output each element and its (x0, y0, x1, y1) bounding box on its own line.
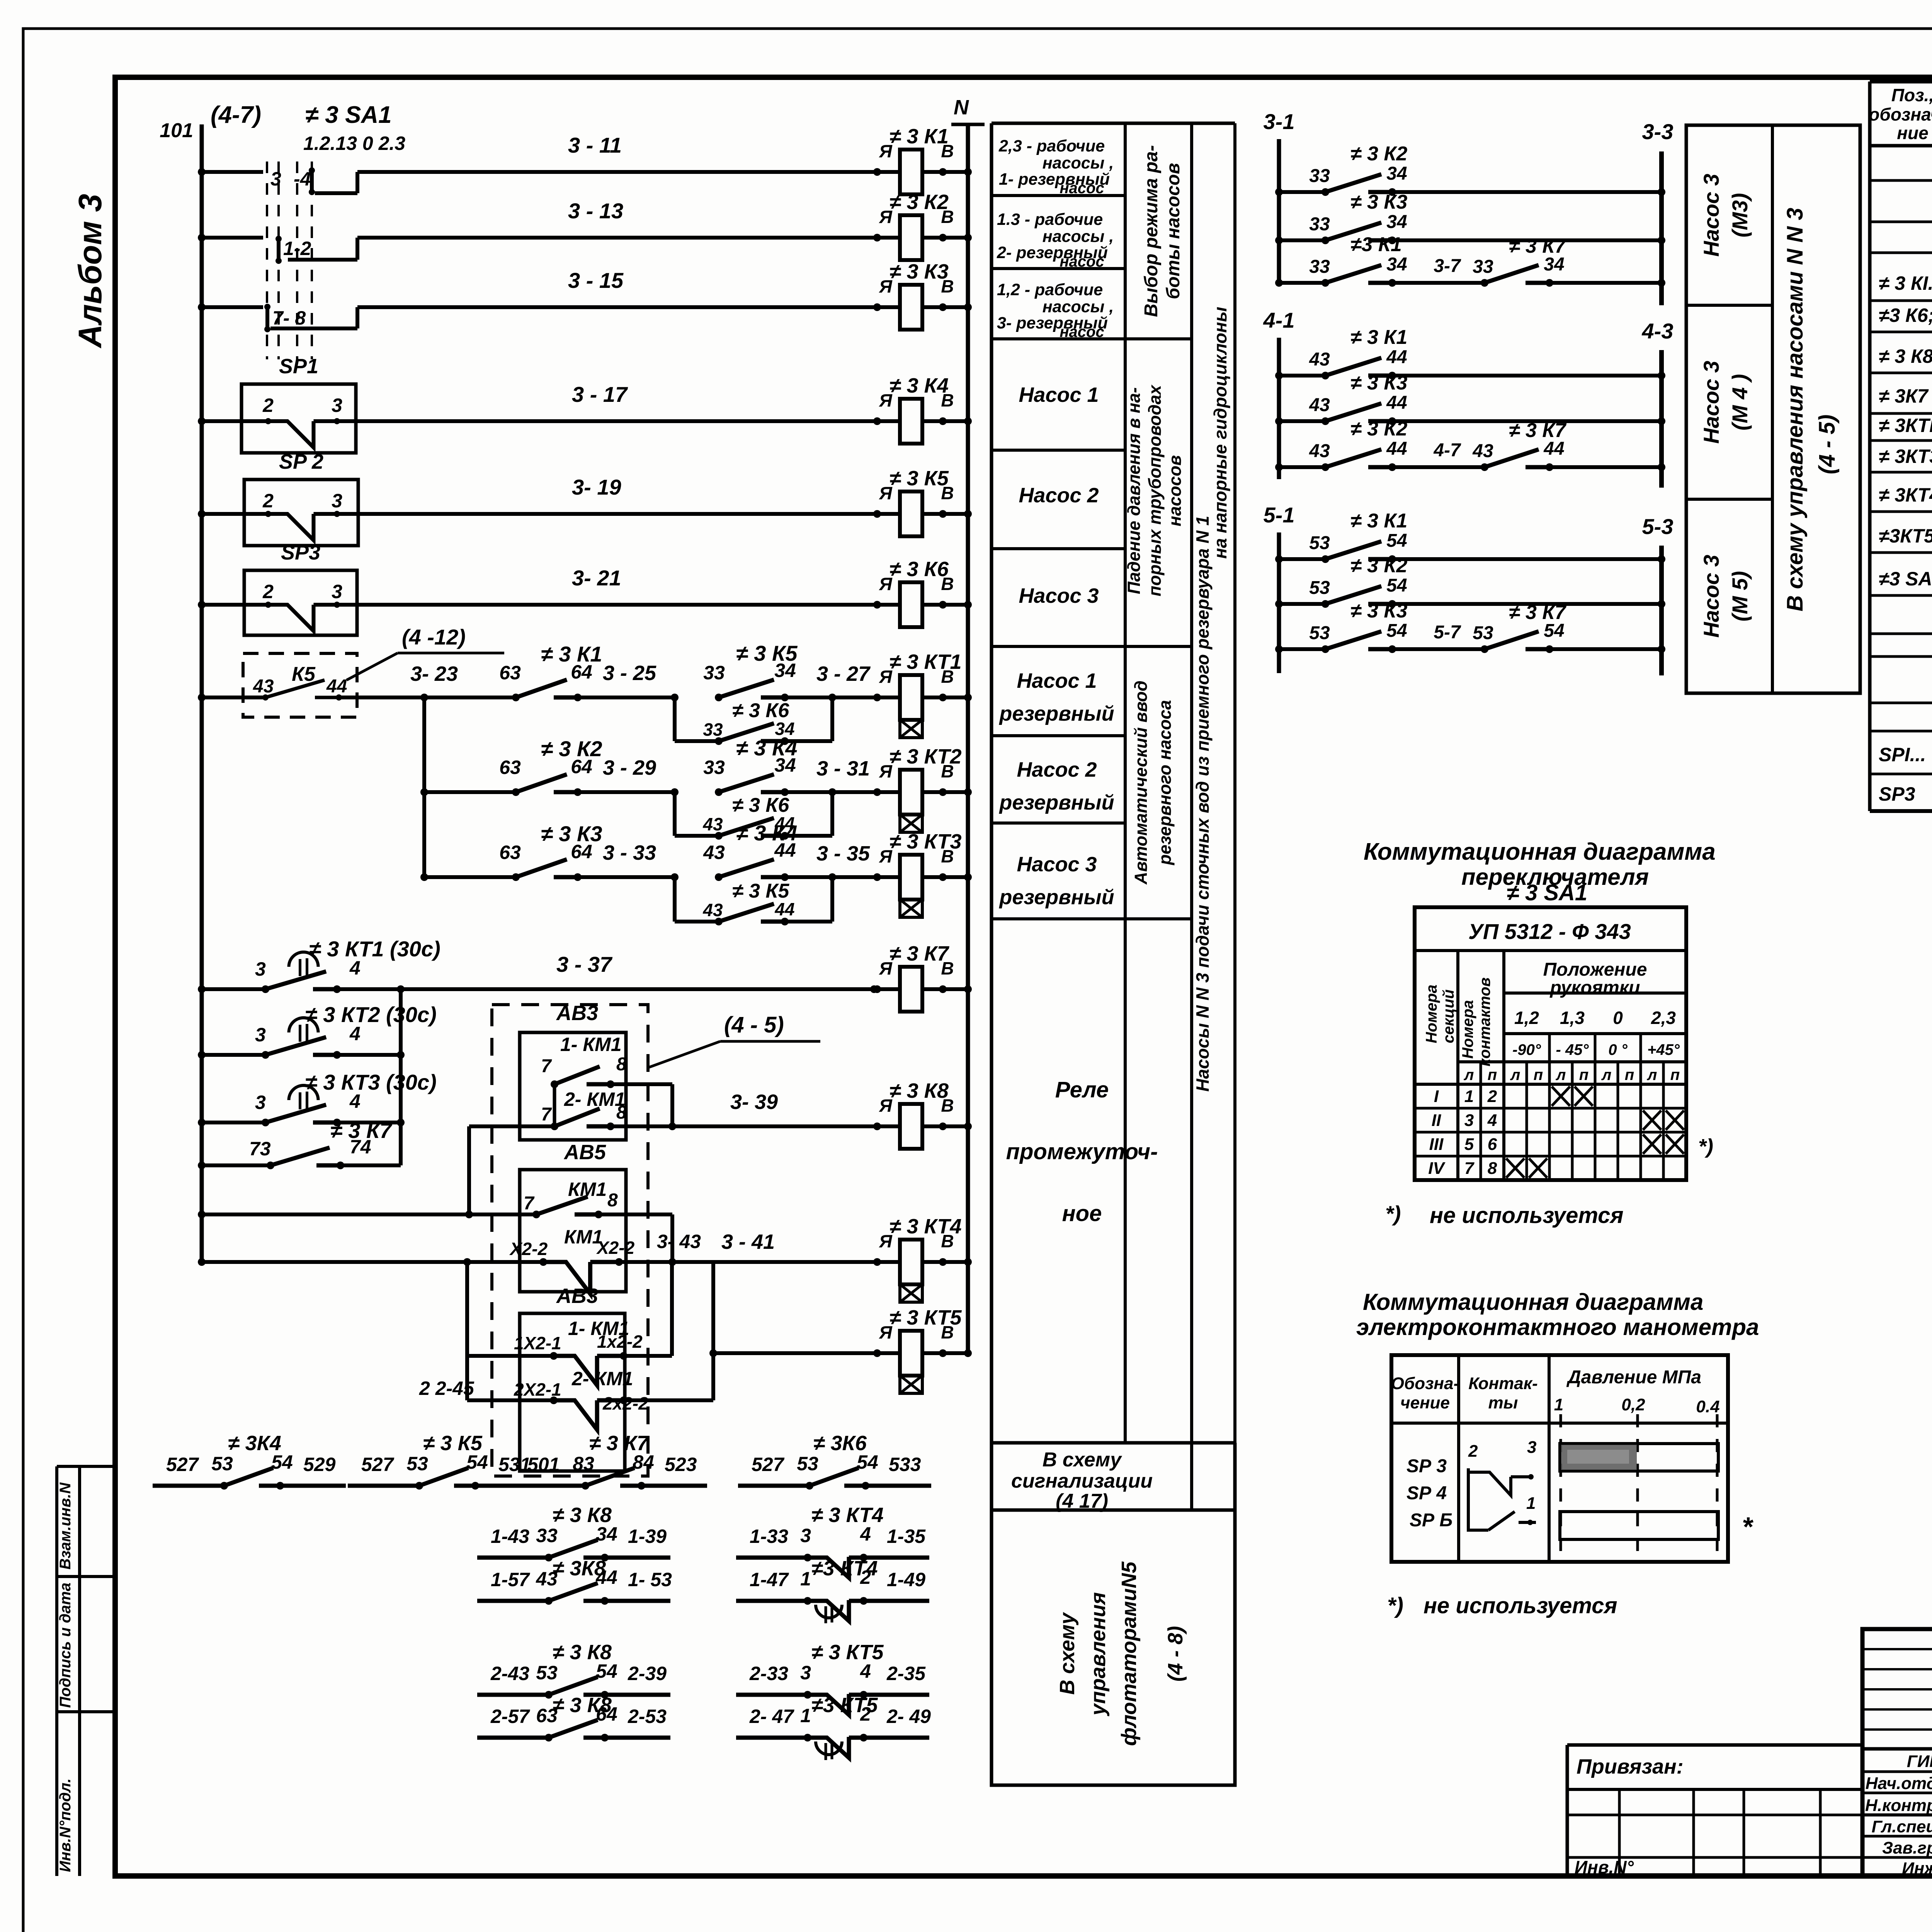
svg-text:4-3: 4-3 (1642, 319, 1673, 343)
svg-text:43: 43 (703, 842, 725, 863)
svg-text:-4: -4 (294, 168, 311, 190)
svg-text:п: п (1488, 1066, 1497, 1083)
relay coil K2 (862, 236, 900, 240)
svg-text:SР 4: SР 4 (1406, 1483, 1447, 1503)
svg-text:0.4: 0.4 (1696, 1397, 1719, 1416)
svg-text:(4 - 8): (4 - 8) (1164, 1626, 1187, 1682)
svg-text:8: 8 (616, 1054, 627, 1075)
svg-text:(4 - 5): (4 - 5) (1815, 415, 1840, 474)
svg-text:≠3 КТ5: ≠3 КТ5 (811, 1694, 878, 1717)
svg-text:2,3: 2,3 (1651, 1008, 1676, 1028)
svg-text:3: 3 (1464, 1111, 1474, 1130)
svg-text:Коммутационная диаграмма: Коммутационная диаграмма (1363, 1289, 1703, 1315)
wire rung 3-21 (198, 601, 206, 609)
svg-text:насос: насос (1060, 323, 1104, 340)
svg-text:1: 1 (800, 1705, 811, 1726)
svg-text:≠ 3К7: ≠ 3К7 (1879, 385, 1929, 407)
svg-text:≠ 3 К8: ≠ 3 К8 (1879, 345, 1932, 367)
svg-text:ное: ное (1062, 1201, 1102, 1226)
svg-text:8: 8 (616, 1102, 627, 1123)
svg-text:2: 2 (262, 581, 274, 602)
svg-text:101: 101 (160, 119, 193, 142)
svg-text:0,2: 0,2 (1621, 1395, 1645, 1414)
svg-text:л: л (1556, 1066, 1566, 1083)
svg-text:3: 3 (255, 1024, 266, 1046)
svg-text:33: 33 (703, 719, 723, 740)
svg-text:контактов: контактов (1476, 977, 1493, 1066)
svg-text:501: 501 (527, 1454, 560, 1475)
svg-text:3: 3 (800, 1662, 811, 1684)
svg-text:≠ 3 КТ1: ≠ 3 КТ1 (889, 650, 962, 673)
chain contact ≠ 3К4 527 (153, 1484, 224, 1488)
branch vertical X2 chains (465, 1262, 469, 1400)
block AB5 (520, 1170, 626, 1292)
svg-text:≠ 3 КТ4: ≠ 3 КТ4 (811, 1503, 884, 1527)
svg-text:л: л (1647, 1066, 1657, 1083)
svg-text:ние: ние (1897, 123, 1928, 143)
svg-text:1,3: 1,3 (1560, 1008, 1585, 1028)
svg-text:523: 523 (665, 1454, 697, 1475)
svg-text:1.3 - рабочие: 1.3 - рабочие (997, 210, 1103, 229)
wire rung 3-19 (198, 510, 206, 518)
svg-text:3 - 27: 3 - 27 (816, 662, 871, 685)
svg-text:3-3: 3-3 (1642, 119, 1673, 144)
svg-text:53: 53 (797, 1453, 818, 1475)
svg-text:SРI...: SРI... (1879, 744, 1926, 765)
svg-text:≠ 3 К7: ≠ 3 К7 (1509, 235, 1566, 257)
svg-text:насосов: насосов (1165, 455, 1185, 526)
svg-text:63: 63 (499, 757, 521, 778)
svg-text:3- 43: 3- 43 (657, 1231, 701, 1252)
svg-text:Номера: Номера (1423, 985, 1440, 1043)
wire rung 3-13 (198, 234, 206, 241)
svg-text:≠ 3 К3: ≠ 3 К3 (1350, 191, 1407, 213)
svg-text:насос: насос (1060, 253, 1104, 270)
svg-text:SР3: SР3 (1879, 783, 1915, 805)
svg-text:3 - 41: 3 - 41 (721, 1230, 775, 1253)
relay coil KT1 (time) (862, 696, 900, 699)
svg-text:3 - 25: 3 - 25 (603, 662, 656, 685)
svg-text:≠3 КТ4: ≠3 КТ4 (811, 1557, 878, 1580)
svg-text:1-39: 1-39 (628, 1526, 667, 1547)
pressure switch SP3 (244, 570, 357, 635)
wire rung KT2 3-29 (420, 788, 428, 796)
svg-text:Насос 3: Насос 3 (1017, 853, 1097, 876)
svg-text:5-7: 5-7 (1434, 622, 1461, 643)
svg-text:резервный: резервный (998, 791, 1114, 814)
svg-text:Насос 3: Насос 3 (1699, 555, 1723, 638)
SA1 commutation table (1415, 907, 1686, 1180)
N rail (966, 124, 970, 1353)
svg-text:≠ 3 К2: ≠ 3 К2 (1350, 418, 1407, 440)
svg-text:33: 33 (1309, 257, 1330, 277)
svg-text:44: 44 (1386, 439, 1407, 459)
svg-text:≠ 3 КТ2: ≠ 3 КТ2 (889, 745, 962, 768)
svg-text:управления: управления (1087, 1592, 1110, 1717)
svg-text:≠ 3 К5: ≠ 3 К5 (732, 880, 789, 902)
svg-text:п: п (1534, 1066, 1543, 1083)
group rung 3-1-3 (1275, 279, 1283, 287)
svg-text:≠ 3 К1: ≠ 3 К1 (889, 125, 949, 148)
svg-text:0 °: 0 ° (1608, 1041, 1628, 1058)
svg-text:2: 2 (1487, 1087, 1497, 1106)
svg-text:33: 33 (536, 1525, 558, 1546)
svg-text:≠ 3 К5: ≠ 3 К5 (889, 467, 949, 490)
svg-text:≠ 3 К8: ≠ 3 К8 (889, 1079, 949, 1102)
svg-text:3- 19: 3- 19 (572, 475, 621, 499)
wire rung KT3 3-33 (420, 873, 428, 881)
svg-text:≠ 3КТ3: ≠ 3КТ3 (1879, 446, 1932, 467)
svg-text:529: 529 (303, 1454, 336, 1475)
svg-text:УП 5312 - Ф 343: УП 5312 - Ф 343 (1468, 919, 1631, 944)
right rail 3-3 (1659, 151, 1664, 305)
svg-text:≠ 3 КI...: ≠ 3 КI... (1879, 272, 1932, 294)
chain contact ≠ 3 К8 1-43 (477, 1556, 549, 1560)
svg-text:2: 2 (1468, 1442, 1478, 1461)
svg-text:44: 44 (326, 676, 347, 697)
svg-text:л: л (1464, 1066, 1474, 1083)
svg-text:5: 5 (1464, 1135, 1474, 1154)
switch SA1 dashed position lines (266, 156, 268, 359)
svg-text:33: 33 (703, 757, 725, 778)
group rung 4-1-1 (1275, 372, 1283, 379)
svg-text:насосы ,: насосы , (1043, 154, 1114, 172)
pressure switch SP1 (241, 384, 356, 453)
riser to K8 rung (670, 1084, 674, 1126)
svg-text:II: II (1432, 1111, 1441, 1130)
svg-text:7: 7 (524, 1193, 535, 1214)
svg-text:3- 23: 3- 23 (410, 662, 458, 685)
left margin strip (55, 1466, 58, 1876)
wire rung 3-39 to K8 (611, 1124, 877, 1128)
svg-text:1-49: 1-49 (887, 1569, 925, 1590)
block AB3 upper (520, 1032, 626, 1140)
svg-text:33: 33 (1309, 214, 1330, 235)
wire rung KT4 3-41 (713, 1260, 877, 1264)
svg-text:≠ 3 К7: ≠ 3 К7 (589, 1432, 650, 1455)
chain contact ≠ 3 К7 501 (514, 1484, 585, 1488)
svg-text:1-33: 1-33 (750, 1526, 788, 1547)
svg-text:промежуточ-: промежуточ- (1006, 1139, 1158, 1164)
svg-text:рукоятки: рукоятки (1549, 978, 1640, 998)
bypass contact K6 43-44 (673, 792, 677, 836)
group rail 3-1 (1277, 139, 1281, 286)
bypass contact K6 33-34 (673, 697, 677, 741)
bypass contact K5 43-44 (673, 877, 677, 922)
svg-text:1-35: 1-35 (887, 1526, 926, 1547)
chain contact ≠ 3К8 1-57 (477, 1599, 549, 1603)
svg-text:7- 8: 7- 8 (272, 307, 306, 329)
chain contact ≠3 КТ4 1-47 (736, 1599, 808, 1603)
junction vertical for K7 feeds (399, 989, 403, 1165)
group rung 3-1-1 (1275, 188, 1283, 196)
svg-text:(М 4 ): (М 4 ) (1728, 374, 1752, 430)
wire rung 3-37 (198, 985, 206, 993)
svg-text:Зав.гр.: Зав.гр. (1882, 1838, 1932, 1857)
svg-text:4-7: 4-7 (1433, 440, 1461, 461)
svg-text:Насос 3: Насос 3 (1699, 361, 1723, 444)
right rail 5-3 (1659, 546, 1664, 675)
svg-text:1- 53: 1- 53 (628, 1569, 672, 1590)
svg-text:2- 47: 2- 47 (749, 1706, 794, 1727)
svg-text:7: 7 (1464, 1159, 1475, 1178)
svg-text:83: 83 (573, 1453, 594, 1475)
to flotator control cell (992, 1510, 1235, 1785)
wire rung KT5 (713, 1351, 877, 1355)
svg-text:*): *) (1385, 1201, 1401, 1226)
svg-text:ты: ты (1488, 1393, 1518, 1412)
svg-text:74: 74 (350, 1136, 371, 1158)
svg-text:≠ 3 К1: ≠ 3 К1 (1350, 326, 1407, 349)
wire rung K7 contact 73-74 (198, 1162, 206, 1169)
svg-text:Инв.N°подл.: Инв.N°подл. (57, 1778, 74, 1872)
svg-text:43: 43 (702, 814, 723, 834)
svg-text:≠ 3 SА1: ≠ 3 SА1 (1507, 880, 1587, 905)
pressure bar contact 1 (1560, 1512, 1718, 1539)
svg-text:электроконтактного манометра: электроконтактного манометра (1356, 1314, 1759, 1340)
svg-text:6: 6 (1488, 1135, 1497, 1154)
branch vertical to KT2 KT3 (422, 697, 426, 877)
svg-text:54: 54 (1386, 575, 1407, 596)
svg-text:п: п (1625, 1066, 1634, 1083)
svg-text:ГИП: ГИП (1907, 1752, 1932, 1771)
switch SA1 contact 1-2 (276, 236, 282, 242)
svg-text:3-7: 3-7 (1434, 256, 1461, 276)
svg-text:≠ 3 К2: ≠ 3 К2 (1350, 143, 1407, 165)
svg-text:≠ 3 К8: ≠ 3 К8 (553, 1694, 612, 1717)
svg-text:≠ 3 К5: ≠ 3 К5 (736, 641, 798, 665)
svg-text:53: 53 (1309, 533, 1330, 553)
svg-text:63: 63 (499, 842, 521, 863)
svg-text:Коммутационная диаграмма: Коммутационная диаграмма (1364, 838, 1716, 865)
svg-text:527: 527 (166, 1454, 199, 1475)
svg-text:7: 7 (541, 1056, 552, 1077)
svg-text:2-39: 2-39 (628, 1663, 667, 1684)
relay coil KT2 (time) (862, 790, 900, 794)
svg-text:Подпись и дата: Подпись и дата (57, 1583, 74, 1708)
svg-text:боты насосов: боты насосов (1163, 163, 1184, 299)
svg-text:≠3 К1: ≠3 К1 (1350, 233, 1402, 256)
svg-text:резервного насоса: резервного насоса (1155, 700, 1175, 866)
svg-text:Поз.,: Поз., (1891, 85, 1932, 105)
wire rung 3-17 (198, 417, 206, 425)
svg-text:≠ 3 К2: ≠ 3 К2 (541, 736, 602, 761)
svg-text:флотаторамиN5: флотаторамиN5 (1117, 1561, 1141, 1746)
svg-text:43: 43 (702, 900, 723, 920)
chain contact ≠3 КТ5 2- 47 (736, 1736, 808, 1740)
svg-text:≠ 3 КТ3: ≠ 3 КТ3 (889, 830, 962, 853)
svg-text:1: 1 (1464, 1087, 1474, 1106)
svg-text:63: 63 (499, 662, 521, 684)
svg-text:секций: секций (1440, 990, 1457, 1043)
svg-text:43: 43 (1309, 441, 1330, 461)
svg-text:53: 53 (1309, 623, 1330, 643)
svg-text:33: 33 (1309, 166, 1330, 186)
svg-text:≠ 3КТ4: ≠ 3КТ4 (1879, 484, 1932, 506)
svg-text:≠ 3 К7: ≠ 3 К7 (1509, 419, 1566, 442)
svg-text:3 - 37: 3 - 37 (556, 952, 613, 976)
svg-text:SР Б: SР Б (1410, 1510, 1452, 1531)
svg-text:4: 4 (349, 957, 361, 979)
group rail 5-1 (1277, 532, 1281, 673)
svg-text:АВ3: АВ3 (556, 1284, 598, 1308)
wire rung 3-11 (198, 168, 206, 176)
svg-text:насосы ,: насосы , (1043, 227, 1114, 246)
svg-text:≠ 3 К8: ≠ 3 К8 (553, 1641, 612, 1664)
svg-text:1- КМ1: 1- КМ1 (560, 1034, 622, 1055)
svg-text:1-43: 1-43 (491, 1526, 529, 1547)
svg-text:≠ 3К4: ≠ 3К4 (228, 1432, 281, 1455)
svg-text:Обозна-: Обозна- (1391, 1374, 1459, 1393)
svg-text:обозначе-: обозначе- (1869, 104, 1932, 124)
svg-text:3: 3 (332, 395, 342, 416)
svg-text:Насос 3: Насос 3 (1019, 584, 1099, 607)
svg-text:АВ3: АВ3 (556, 1002, 598, 1025)
svg-text:(4 -12): (4 -12) (402, 625, 466, 649)
svg-text:3: 3 (255, 1092, 266, 1113)
svg-text:I: I (1434, 1087, 1439, 1106)
svg-text:3: 3 (332, 581, 342, 602)
svg-text:≠ 3 КТ2 (30с): ≠ 3 КТ2 (30с) (305, 1002, 437, 1027)
svg-text:≠3 К6;: ≠3 К6; (1879, 304, 1932, 326)
svg-text:Гл.спец.: Гл.спец. (1872, 1817, 1932, 1836)
svg-text:≠ 3 КТ3 (30с): ≠ 3 КТ3 (30с) (305, 1070, 437, 1094)
svg-text:SP3: SP3 (281, 541, 320, 564)
parts list table (1868, 82, 1872, 811)
svg-text:В схему: В схему (1043, 1449, 1122, 1471)
svg-text:+45°: +45° (1647, 1041, 1680, 1058)
wire rung KM1 X2-2 (198, 1258, 206, 1266)
svg-text:Альбом 3: Альбом 3 (72, 194, 108, 349)
svg-text:≠ 3 К8: ≠ 3 К8 (553, 1503, 612, 1527)
svg-text:Насосы N N 3 подачи сточных: Насосы N N 3 подачи сточных вод из прием… (1192, 516, 1213, 1092)
svg-text:≠ 3 К4: ≠ 3 К4 (736, 821, 798, 845)
svg-text:Х2-2: Х2-2 (509, 1239, 548, 1259)
svg-text:насосы ,: насосы , (1043, 298, 1114, 316)
svg-text:SР 3: SР 3 (1406, 1456, 1447, 1476)
chain contact ≠ 3 К5 527 (348, 1484, 419, 1488)
svg-text:3 - 31: 3 - 31 (816, 757, 870, 780)
svg-text:Падение давления в на-: Падение давления в на- (1124, 387, 1144, 594)
svg-text:2- КМ1: 2- КМ1 (571, 1368, 633, 1389)
svg-text:резервный: резервный (998, 702, 1114, 725)
svg-text:53: 53 (211, 1453, 233, 1475)
svg-text:2-53: 2-53 (628, 1706, 667, 1727)
svg-text:5-3: 5-3 (1642, 514, 1673, 539)
svg-text:Номера: Номера (1459, 1000, 1476, 1059)
group rung 4-1-3 (1275, 463, 1283, 471)
svg-text:3 - 17: 3 - 17 (572, 382, 628, 406)
relay coil K6 (862, 603, 900, 607)
svg-text:53: 53 (1473, 623, 1493, 643)
svg-text:≠ 3 К4: ≠ 3 К4 (889, 374, 949, 397)
svg-text:44: 44 (1386, 393, 1407, 413)
svg-text:1.2.13 0 2.3: 1.2.13 0 2.3 (303, 133, 405, 154)
svg-text:порных трубопроводах: порных трубопроводах (1145, 384, 1165, 597)
svg-text:не используется: не используется (1423, 1593, 1617, 1618)
svg-text:3: 3 (1527, 1438, 1536, 1457)
dashed cabinet box (492, 1005, 648, 1476)
svg-text:Насос 2: Насос 2 (1017, 758, 1097, 781)
svg-text:34: 34 (1386, 163, 1407, 184)
svg-text:В схему управления насосами: В схему управления насосами N N 3 (1782, 208, 1808, 612)
relay coil K8 (862, 1124, 900, 1128)
wire rung KT1 main 3-23 (198, 694, 206, 701)
svg-text:33: 33 (703, 662, 725, 684)
svg-text:≠ 3 КТ5: ≠ 3 КТ5 (811, 1641, 884, 1664)
relay coil KT3 (time) (862, 875, 900, 879)
svg-text:IV: IV (1428, 1159, 1446, 1178)
svg-text:III: III (1429, 1135, 1444, 1154)
svg-text:Х2-2: Х2-2 (596, 1238, 635, 1258)
svg-text:2- 49: 2- 49 (886, 1706, 931, 1727)
svg-text:3 - 29: 3 - 29 (603, 756, 656, 779)
right rail 4-3 (1659, 350, 1664, 488)
svg-text:4-1: 4-1 (1263, 308, 1295, 332)
svg-text:533: 533 (889, 1454, 921, 1475)
svg-text:≠3 SА1: ≠3 SА1 (1879, 568, 1932, 590)
group rung 5-1-1 (1275, 555, 1283, 563)
svg-text:чение: чение (1400, 1393, 1450, 1412)
svg-text:2,3 - рабочие: 2,3 - рабочие (998, 137, 1105, 155)
svg-text:- 45°: - 45° (1556, 1041, 1589, 1058)
svg-text:≠ 3 К2: ≠ 3 К2 (889, 190, 949, 214)
svg-text:≠ 3 К6: ≠ 3 К6 (732, 794, 789, 816)
svg-text:насос: насос (1060, 180, 1104, 197)
svg-text:≠ 3 КТ5: ≠ 3 КТ5 (889, 1306, 962, 1329)
svg-text:≠ 3КТI...: ≠ 3КТI... (1879, 415, 1932, 436)
svg-text:≠ 3 К2: ≠ 3 К2 (1350, 554, 1407, 577)
svg-text:на напорные гидроциклоны: на напорные гидроциклоны (1210, 307, 1230, 559)
svg-text:54: 54 (1386, 621, 1407, 641)
svg-text:*): *) (1698, 1135, 1713, 1158)
group rail 4-1 (1277, 338, 1281, 479)
svg-text:Давление МПа: Давление МПа (1566, 1367, 1701, 1388)
svg-text:53: 53 (1309, 578, 1330, 598)
relay coil KT5 (time) (862, 1351, 900, 1355)
svg-text:34: 34 (1386, 254, 1407, 275)
svg-text:3- 39: 3- 39 (730, 1090, 778, 1114)
svg-text:*): *) (1387, 1593, 1403, 1618)
svg-text:0: 0 (1613, 1008, 1623, 1028)
svg-text:2-35: 2-35 (886, 1663, 926, 1684)
svg-text:Нач.отд.: Нач.отд. (1866, 1774, 1932, 1793)
wire rung KT3 contact (198, 1119, 206, 1126)
svg-text:Контак-: Контак- (1468, 1374, 1537, 1393)
function table (990, 123, 993, 1510)
svg-text:7: 7 (541, 1104, 552, 1125)
svg-text:≠ 3 К5: ≠ 3 К5 (423, 1432, 483, 1455)
group rung 4-1-2 (1275, 417, 1283, 425)
svg-text:4: 4 (349, 1023, 361, 1044)
svg-text:сигнализации: сигнализации (1011, 1470, 1153, 1492)
svg-text:2-57: 2-57 (490, 1706, 530, 1727)
svg-text:Положение: Положение (1543, 959, 1647, 980)
chain contact ≠ 3 К8 2-57 (477, 1736, 549, 1740)
chain contact ≠ 3 КТ4 1-33 (736, 1556, 808, 1560)
group rung 5-1-2 (1275, 600, 1283, 608)
svg-text:1-47: 1-47 (750, 1569, 789, 1590)
svg-text:Насос 1: Насос 1 (1019, 383, 1099, 406)
svg-text:43: 43 (1309, 349, 1330, 370)
svg-text:≠ 3 К1: ≠ 3 К1 (1350, 510, 1407, 532)
svg-text:N: N (954, 96, 969, 119)
svg-text:Взам.инв.N: Взам.инв.N (57, 1482, 74, 1570)
pressure switch SP2 (244, 480, 358, 546)
svg-text:3- 21: 3- 21 (572, 566, 621, 590)
svg-text:≠ 3 К1: ≠ 3 К1 (541, 642, 602, 666)
svg-text:43: 43 (1472, 441, 1493, 461)
